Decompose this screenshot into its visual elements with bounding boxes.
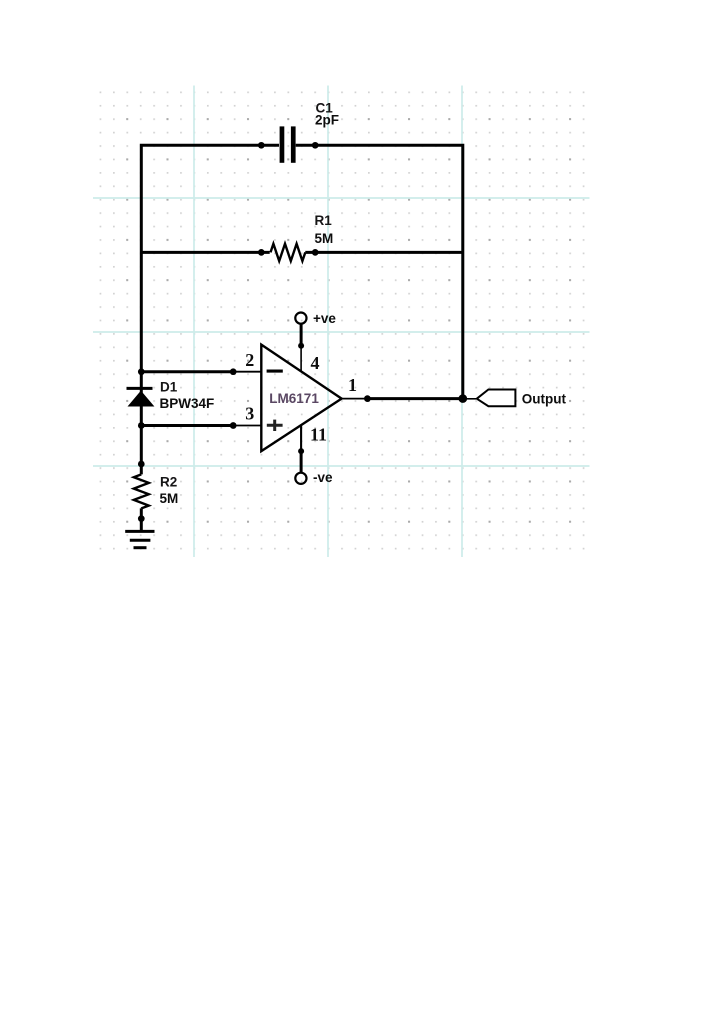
node: R1 left junction: [258, 249, 265, 256]
wire: positive supply pin 4 (thick): [300, 324, 303, 347]
svg-text:D1: D1: [160, 380, 178, 395]
wire: op-amp output stub (pin 1): [342, 398, 368, 400]
node: left vertical / pin2 junction: [138, 368, 145, 375]
connector: Output port: [477, 390, 516, 407]
svg-text:2: 2: [245, 350, 254, 370]
wire: pin 2 stub: [233, 371, 261, 373]
ground: [125, 531, 154, 547]
wire: top feedback loop (left segment to C1): [141, 145, 279, 474]
svg-text:Output: Output: [522, 391, 567, 406]
wire: pin 3 stub: [233, 425, 261, 427]
op-amp minus symbol: [267, 370, 283, 373]
node: pin3 stub junction: [230, 422, 237, 429]
svg-text:11: 11: [310, 425, 327, 445]
node: left vertical / pin3 junction: [138, 422, 145, 429]
node: pin4 junction: [298, 343, 304, 349]
wire: pin 11 stub from op-amp: [300, 426, 302, 452]
svg-text:+ve: +ve: [313, 311, 336, 326]
op-amp U1 triangle: [261, 345, 341, 452]
svg-text:4: 4: [311, 353, 320, 373]
node: R1 right junction: [312, 249, 319, 256]
node: C1 left junction: [258, 142, 265, 149]
wire: output to feedback node: [367, 397, 462, 400]
wire: R2 to ground: [140, 508, 143, 531]
grid dots: [93, 86, 590, 558]
wire: pin 4 stub into op-amp: [300, 346, 302, 372]
grid major cyan lines: [93, 86, 590, 558]
wire: to output connector: [463, 398, 476, 400]
node: output stub junction: [364, 395, 371, 402]
resistor R2: [134, 474, 149, 508]
node: C1 right junction: [312, 142, 319, 149]
node: R2 top junction: [138, 461, 145, 468]
capacitor C1: [280, 126, 296, 162]
svg-text:-ve: -ve: [313, 470, 333, 485]
wire: inverting input (pin 2): [141, 370, 233, 373]
svg-text:3: 3: [245, 403, 254, 423]
wire: non-inverting input (pin 3): [141, 424, 233, 427]
svg-text:R2: R2: [160, 475, 177, 490]
photodiode D1: [127, 388, 155, 406]
svg-text:R1: R1: [315, 213, 333, 228]
svg-text:BPW34F: BPW34F: [160, 396, 215, 411]
svg-text:LM6171: LM6171: [269, 391, 319, 406]
terminal +ve: [295, 313, 306, 324]
terminal -ve: [295, 473, 306, 484]
wire: negative supply pin 11 (thick): [300, 450, 303, 473]
svg-text:5M: 5M: [160, 491, 179, 506]
wire: R1 horizontal (left part): [140, 251, 270, 254]
node: feedback/output junction: [459, 394, 468, 403]
svg-text:5M: 5M: [315, 231, 334, 246]
svg-text:1: 1: [348, 375, 357, 395]
wire: R1 horizontal (right part): [305, 251, 464, 254]
node: pin11 junction: [298, 448, 304, 454]
op-amp plus symbol: [267, 420, 283, 431]
node: pin2 stub junction: [230, 368, 237, 375]
wire: top feedback loop (C1 to right vertical down to output node): [296, 145, 463, 398]
node: R2 bottom junction: [138, 515, 145, 522]
resistor R1: [271, 244, 306, 261]
svg-text:2pF: 2pF: [315, 112, 339, 127]
